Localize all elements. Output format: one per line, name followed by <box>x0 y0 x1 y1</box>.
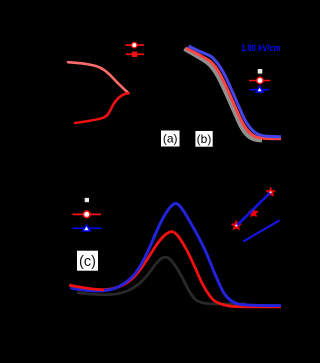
svg-text:1.80 kV/cm: 1.80 kV/cm <box>241 43 281 54</box>
svg-text:(b): (b) <box>197 132 212 146</box>
svg-text:(a): (a) <box>163 132 178 146</box>
svg-text:(c): (c) <box>79 254 96 270</box>
